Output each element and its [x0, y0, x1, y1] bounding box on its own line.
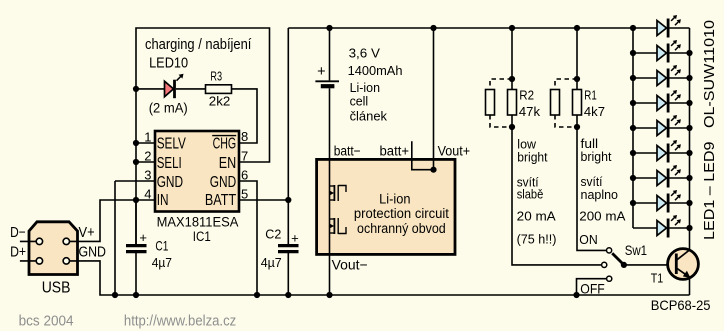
dashed wire from optional R2 partner [490, 115, 512, 127]
capacitor C2 [278, 28, 299, 295]
USB pin GND [63, 258, 69, 264]
junction C2 ground [285, 292, 291, 298]
junction cathode bus [686, 200, 692, 206]
wire R2 to switch low contact [512, 115, 601, 265]
svg-text:GND: GND [210, 174, 236, 191]
wire pin6 GND down to bus [239, 181, 257, 295]
junction R1 top [574, 25, 580, 31]
switch Sw1 pivot [621, 262, 627, 268]
svg-text:bright: bright [581, 149, 612, 164]
CHG overline [212, 135, 236, 137]
svg-text:protection circuit: protection circuit [354, 206, 449, 221]
svg-text:3: 3 [144, 168, 151, 183]
junction OFF ground [573, 292, 579, 298]
junction cathode bus [686, 75, 692, 81]
svg-text:1400mAh: 1400mAh [348, 63, 403, 78]
junction battery+ [326, 25, 332, 31]
op-amp U1 : IC1 MAX1811ESA body [155, 131, 239, 212]
USB pin D- [36, 238, 42, 244]
wire anode LED5 [633, 127, 657, 129]
junction cathode bus [686, 100, 692, 106]
wire LED anode bus [632, 28, 634, 228]
svg-text:Vout−: Vout− [332, 256, 368, 272]
junction batt+/Vout+ [430, 167, 436, 173]
svg-text:bright: bright [517, 150, 547, 165]
svg-text:SELI: SELI [157, 155, 182, 172]
wire pin3 GND down to bus [114, 181, 116, 295]
junction anode bus [630, 150, 636, 156]
dashed wire to optional R2 partner [490, 79, 512, 90]
resistor R1 [573, 90, 582, 116]
wire collector [689, 228, 691, 249]
junction anode bus [630, 175, 636, 181]
svg-text:4k7: 4k7 [584, 104, 605, 119]
junction cathode bus [686, 125, 692, 131]
svg-text:BCP68-25: BCP68-25 [651, 298, 711, 313]
svg-text:20 mA: 20 mA [517, 209, 556, 224]
wire batt+ stub into module [412, 141, 434, 169]
junction pin1 [133, 140, 139, 146]
wire anode LED1 [633, 27, 657, 29]
transistor T1 BCP68-25 [668, 249, 699, 280]
svg-text:IC1: IC1 [193, 229, 211, 244]
junction R2 top [509, 25, 515, 31]
dashed wire from optional R1 partner [555, 115, 577, 127]
wire cathode LED6 [670, 152, 690, 154]
junction Vout- bus [326, 292, 332, 298]
LED8 [657, 190, 681, 213]
junction anode bus [630, 100, 636, 106]
svg-text:8: 8 [241, 129, 248, 144]
wire Vout- to ground bus [329, 254, 331, 295]
svg-text:4µ7: 4µ7 [152, 255, 172, 270]
wire R1 to switch ON contact [577, 115, 606, 250]
svg-text:http://www.belza.cz: http://www.belza.cz [124, 313, 236, 329]
svg-text:slabě: slabě [517, 187, 544, 202]
svg-text:SELV: SELV [157, 136, 187, 153]
wire anode LED7 [633, 177, 657, 179]
svg-text:R2: R2 [519, 87, 534, 102]
svg-text:C1: C1 [155, 237, 168, 253]
LED10 [165, 74, 184, 99]
wire cathode LED4 [670, 102, 690, 104]
battery B1 Li-ion cell [315, 28, 339, 159]
wire GND bottom bus [70, 261, 690, 295]
switch Sw1 OFF contact [607, 276, 612, 281]
LED9 [657, 215, 681, 238]
wire cathode LED8 [670, 202, 690, 204]
junction R2 bottom [509, 124, 515, 130]
LED1 [657, 15, 681, 38]
junction R1 top [574, 76, 580, 82]
svg-text:charging / nabíjení: charging / nabíjení [145, 37, 251, 53]
junction cathode bus [686, 175, 692, 181]
wire cathode LED7 [670, 177, 690, 179]
wire SELV/SELI/EN loop around charging box [136, 28, 270, 244]
resistor R1 optional parallel (dashed branch) [551, 90, 560, 116]
switch Sw1 low contact [602, 262, 607, 267]
USB pin D+ [36, 258, 42, 264]
svg-text:3,6 V: 3,6 V [349, 45, 381, 60]
wire switch pole to T1 base [624, 264, 668, 266]
wire batt- through module [329, 159, 331, 254]
junction R2 top [509, 76, 515, 82]
svg-text:batt−: batt− [334, 144, 361, 159]
wire OFF contact to ground bus [577, 279, 607, 295]
svg-text:200 mA: 200 mA [579, 209, 625, 224]
wire pin3 GND [115, 180, 155, 182]
junction LED bus top [630, 25, 636, 31]
wire anode LED2 [633, 52, 657, 54]
wire R3 to IC pin8 CHG [232, 89, 258, 143]
wire pin5 BATT [239, 199, 288, 201]
junction GND bus [112, 292, 118, 298]
LED5 [657, 115, 681, 138]
wire top bus to R2 [511, 28, 513, 90]
USB connector [29, 222, 78, 275]
LED6 [657, 140, 681, 163]
junction R1 bottom [574, 124, 580, 130]
LED4 [657, 90, 681, 113]
svg-text:USB: USB [42, 279, 71, 296]
wire pin2 stub [136, 161, 155, 163]
svg-text:+: + [139, 230, 147, 245]
junction anode bus [630, 50, 636, 56]
svg-text:MAX1811ESA: MAX1811ESA [157, 215, 239, 230]
junction anode bus [630, 75, 636, 81]
svg-text:7: 7 [241, 149, 248, 164]
wire emitter to ground bus [689, 279, 691, 296]
svg-text:batt+: batt+ [380, 144, 410, 159]
svg-text:CHG: CHG [213, 136, 237, 153]
svg-text:Li-ion: Li-ion [379, 191, 410, 206]
wire top bus BATT/battery+ [288, 27, 633, 29]
svg-text:Vout+: Vout+ [438, 143, 471, 159]
svg-text:4: 4 [144, 187, 151, 202]
svg-text:Sw1: Sw1 [625, 242, 647, 258]
svg-text:LED1 – LED9 OL-SUW11010: LED1 – LED9 OL-SUW11010 [701, 20, 718, 240]
svg-text:R3: R3 [210, 68, 222, 83]
junction LED10 anode [133, 86, 139, 92]
svg-text:GND: GND [79, 245, 107, 261]
wire Vout+ riser [433, 28, 435, 170]
svg-text:1: 1 [144, 130, 151, 145]
wire pin1 stub [136, 142, 155, 144]
wire top bus to R1 [576, 28, 578, 90]
svg-text:47k: 47k [519, 104, 541, 119]
svg-text:4µ7: 4µ7 [261, 255, 282, 270]
svg-text:D+: D+ [10, 245, 26, 261]
wire anode LED6 [633, 152, 657, 154]
LED7 [657, 165, 681, 188]
svg-text:BATT: BATT [205, 192, 237, 209]
junction pin4 IN / C1 [133, 197, 139, 203]
svg-text:2: 2 [144, 149, 151, 164]
wire anode LED4 [633, 102, 657, 104]
junction cathode bus [686, 50, 692, 56]
capacitor C1 [126, 200, 147, 295]
junction BATT / C2 [285, 197, 291, 203]
svg-text:článek: článek [350, 108, 388, 123]
svg-text:D−: D− [10, 225, 26, 241]
svg-text:EN: EN [219, 155, 237, 172]
junction anode bus [630, 125, 636, 131]
wire cathode LED5 [670, 127, 690, 129]
svg-text:V+: V+ [79, 225, 95, 241]
dashed wire to optional R1 partner [555, 79, 577, 90]
svg-text:IN: IN [157, 192, 169, 209]
wire cathode LED1 [670, 27, 690, 29]
svg-text:T1: T1 [651, 272, 664, 286]
LED3 [657, 65, 681, 88]
svg-text:bcs 2004: bcs 2004 [19, 313, 74, 329]
wire to LED10 [136, 88, 165, 90]
Li-ion protection circuit module [317, 159, 455, 254]
svg-text:+: + [291, 231, 299, 246]
LED2 [657, 40, 681, 63]
resistor R3 [206, 85, 232, 94]
transistor Q1 protection MOSFET [329, 185, 346, 201]
wire cathode LED2 [670, 52, 690, 54]
junction cathode bus [686, 150, 692, 156]
svg-text:(75 h!!): (75 h!!) [517, 232, 557, 247]
resistor R2 [508, 90, 517, 116]
junction anode bus [630, 200, 636, 206]
wire LED10 to R3 [176, 88, 206, 90]
wire D+ stub [20, 260, 37, 262]
wire cathode LED3 [670, 77, 690, 79]
junction pin6 bus [254, 292, 260, 298]
junction Vout+ riser [430, 25, 436, 31]
wire LED cathode bus [689, 28, 691, 228]
USB pin V+ [63, 238, 69, 244]
svg-text:naplno: naplno [581, 187, 619, 202]
svg-text:2k2: 2k2 [209, 93, 231, 108]
svg-text:+: + [317, 64, 325, 80]
junction C1 ground [133, 292, 139, 298]
svg-text:(2 mA): (2 mA) [149, 100, 188, 116]
svg-text:LED10: LED10 [149, 54, 188, 71]
switch Sw1 ON contact [607, 248, 612, 253]
junction cathode bus [686, 225, 692, 231]
switch Sw1 lever [612, 253, 624, 265]
transistor Q2 protection MOSFET [329, 218, 346, 234]
wire cathode LED9 [670, 227, 690, 229]
svg-text:ochranný obvod: ochranný obvod [357, 221, 446, 236]
wire anode LED9 [633, 227, 657, 229]
svg-text:OFF: OFF [580, 280, 605, 296]
junction pin2 [133, 159, 139, 165]
wire anode LED3 [633, 77, 657, 79]
wire V+ to IC pin4 IN [70, 200, 156, 241]
wire D- stub [20, 240, 37, 242]
resistor R2 optional parallel (dashed branch) [486, 90, 495, 116]
svg-text:cell: cell [350, 93, 369, 108]
svg-text:C2: C2 [265, 228, 281, 242]
svg-text:ON: ON [579, 232, 597, 247]
svg-text:GND: GND [157, 174, 183, 191]
wire anode LED8 [633, 202, 657, 204]
svg-text:R1: R1 [584, 87, 597, 102]
